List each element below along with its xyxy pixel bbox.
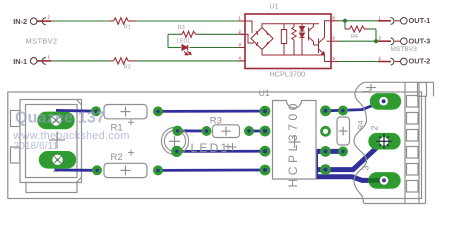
svg-text:IN-1: IN-1	[13, 57, 27, 66]
svg-text:HCPL3700: HCPL3700	[286, 103, 300, 187]
svg-text:3: 3	[239, 42, 242, 47]
svg-text:2: 2	[379, 56, 382, 61]
svg-text:1: 1	[379, 15, 382, 20]
svg-text:4: 4	[239, 55, 242, 60]
svg-text:LED1: LED1	[191, 141, 230, 155]
svg-text:R2: R2	[124, 64, 131, 70]
svg-text:R3: R3	[210, 116, 222, 127]
svg-text:LED1: LED1	[177, 39, 191, 45]
svg-text:OUT-1: OUT-1	[409, 16, 431, 25]
svg-text:2: 2	[239, 29, 242, 34]
svg-text:1: 1	[239, 16, 242, 21]
svg-text:HCPL3700: HCPL3700	[270, 69, 306, 78]
svg-text:8: 8	[333, 15, 336, 20]
svg-text:6: 6	[333, 36, 336, 41]
svg-text:2: 2	[48, 15, 51, 20]
svg-text:MSTBV3: MSTBV3	[391, 46, 418, 53]
svg-text:3: 3	[361, 165, 371, 170]
svg-text:R3: R3	[178, 25, 185, 31]
svg-text:2018/6/11: 2018/6/11	[14, 141, 59, 152]
svg-text:OUT-3: OUT-3	[409, 36, 431, 45]
svg-text:3: 3	[379, 36, 382, 41]
svg-text:1: 1	[362, 89, 372, 94]
svg-text:MSTBV2: MSTBV2	[26, 37, 58, 46]
svg-text:2: 2	[370, 125, 380, 130]
svg-text:R2: R2	[111, 152, 123, 163]
svg-text:1: 1	[48, 54, 51, 59]
svg-text:U1: U1	[270, 4, 279, 11]
svg-text:R4: R4	[356, 120, 365, 130]
svg-text:5: 5	[333, 56, 336, 61]
svg-text:U1: U1	[259, 88, 270, 98]
svg-text:Quazee 137: Quazee 137	[15, 109, 105, 126]
svg-text:R1: R1	[124, 25, 131, 31]
svg-text:R4: R4	[351, 34, 358, 40]
svg-text:IN-2: IN-2	[13, 17, 27, 26]
svg-text:OUT-2: OUT-2	[409, 57, 431, 66]
